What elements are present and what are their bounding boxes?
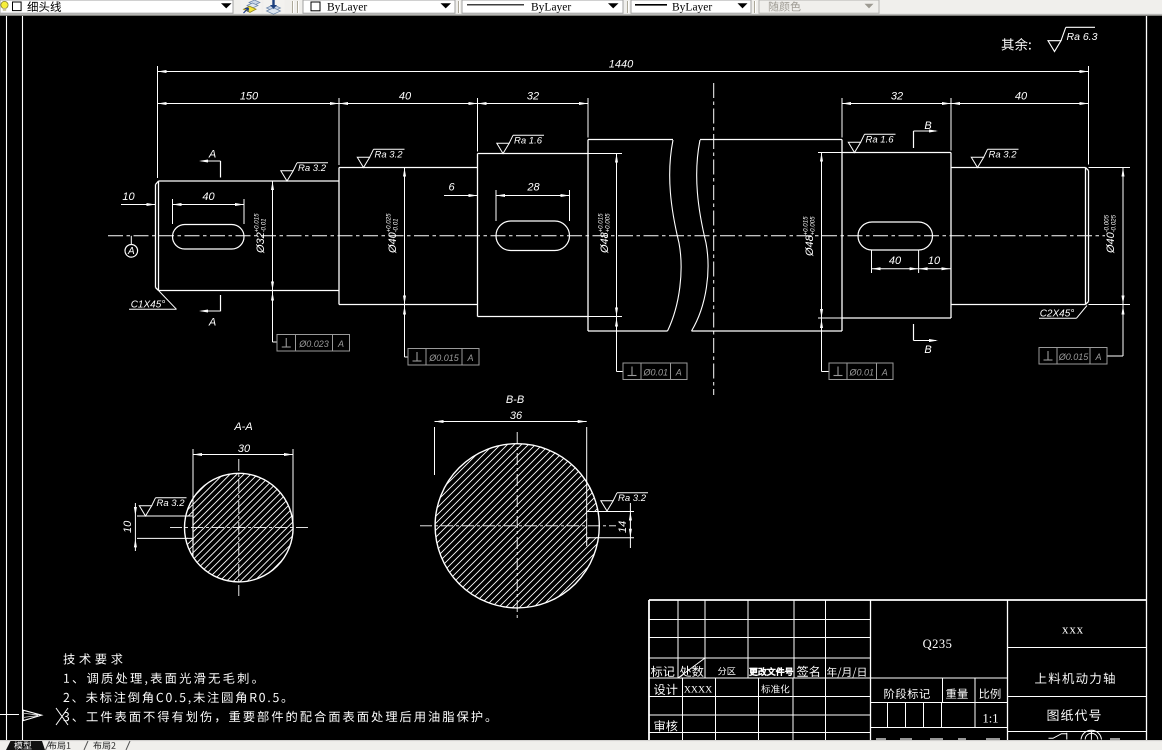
svg-text:36: 36 bbox=[510, 410, 523, 422]
svg-text:Ra 3.2: Ra 3.2 bbox=[298, 163, 327, 174]
horizontal centerline of shaft bbox=[108, 235, 1105, 237]
svg-text:30: 30 bbox=[238, 443, 251, 455]
svg-text:XXXX: XXXX bbox=[684, 685, 712, 696]
svg-text:ByLayer: ByLayer bbox=[672, 1, 712, 13]
combo dropdown arrow bbox=[221, 3, 232, 8]
section mark A top bbox=[220, 161, 222, 178]
diameter dim 48b bbox=[818, 152, 842, 154]
svg-text:Ø0.023: Ø0.023 bbox=[298, 339, 329, 349]
left edge center mark line + hollow arrow bbox=[0, 714, 19, 716]
title block right bbox=[1008, 647, 1147, 649]
svg-text:Ra 3.2: Ra 3.2 bbox=[618, 493, 647, 504]
svg-text:14: 14 bbox=[617, 521, 629, 533]
layer name 轴头线 bbox=[27, 1, 61, 12]
general surface note 其余 Ra6.3 bbox=[1002, 38, 1031, 51]
section mark B top bbox=[913, 131, 915, 148]
svg-text:10: 10 bbox=[122, 520, 134, 533]
svg-text:Ø40: Ø40 bbox=[387, 231, 399, 254]
svg-text:+0.005: +0.005 bbox=[809, 216, 816, 236]
sheet frame right line bbox=[1146, 16, 1148, 740]
lineweight combobox bbox=[631, 0, 751, 13]
linetype combobox bbox=[462, 0, 623, 13]
shaft section 5 (dia 48) bbox=[842, 152, 951, 154]
dimension 6 (keyway offset S3) bbox=[444, 195, 478, 197]
separator bbox=[627, 1, 629, 13]
toolbar background bbox=[0, 0, 1162, 16]
svg-text:150: 150 bbox=[240, 91, 259, 103]
vertical middle centerline bbox=[713, 83, 715, 395]
dimension 40 (keyway S1) bbox=[172, 199, 174, 224]
svg-text:Ra 6.3: Ra 6.3 bbox=[1067, 31, 1098, 43]
shaft section 2 (dia 40) bbox=[339, 167, 478, 169]
svg-text:Q235: Q235 bbox=[923, 637, 953, 651]
svg-text:10: 10 bbox=[122, 191, 135, 203]
shaft section 1 (dia 32) outline with left chamfer bbox=[155, 185, 157, 288]
svg-text:A: A bbox=[675, 368, 682, 378]
svg-text:40: 40 bbox=[1015, 91, 1028, 103]
color combobox bbox=[303, 0, 455, 13]
toolbar separator bbox=[292, 1, 294, 13]
svg-text:Ra 3.2: Ra 3.2 bbox=[989, 150, 1018, 161]
svg-text:-0.025: -0.025 bbox=[1110, 214, 1117, 232]
svg-text:A: A bbox=[208, 317, 216, 329]
title block header texts bbox=[651, 666, 675, 677]
diameter dim 48a bbox=[588, 153, 622, 155]
svg-text:40: 40 bbox=[889, 255, 902, 267]
dimension row: 150/40/32 ... 32/40 bbox=[338, 98, 340, 165]
break line 1 bbox=[668, 140, 682, 331]
datum A circle bbox=[125, 245, 138, 258]
svg-text:B-B: B-B bbox=[506, 394, 524, 406]
surface finish Ra1.6 on S5 bbox=[848, 142, 860, 152]
layout2 tab bbox=[93, 741, 115, 749]
dimension 1440 bbox=[157, 66, 159, 178]
diameter dim 32 bbox=[272, 181, 274, 342]
svg-text:+0.015: +0.015 bbox=[802, 216, 809, 236]
B-B centerlines bbox=[420, 525, 616, 527]
svg-text:B: B bbox=[924, 344, 931, 356]
tolerance frame perp 0.01 A (left) bbox=[623, 363, 687, 380]
shaft middle section top/bottom edges with break gap bbox=[588, 139, 673, 141]
svg-text:ByLayer: ByLayer bbox=[327, 1, 367, 13]
title block outer border bbox=[649, 599, 1146, 601]
svg-text:ByLayer: ByLayer bbox=[531, 1, 571, 13]
plot style combobox (disabled) 随颜色 bbox=[759, 0, 879, 13]
cross mark near item 3 bbox=[56, 708, 68, 725]
tolerance frame perp 0.015 A bbox=[408, 349, 479, 366]
svg-text:Ra 3.2: Ra 3.2 bbox=[375, 150, 404, 161]
layout tab bar bbox=[0, 740, 1162, 750]
shoulder S5/S6 bbox=[950, 153, 952, 319]
svg-text:+0.025: +0.025 bbox=[385, 213, 392, 233]
button: make object layer current bbox=[241, 0, 262, 13]
svg-text:Ø0.01: Ø0.01 bbox=[848, 368, 874, 378]
svg-text:Ø40: Ø40 bbox=[1105, 231, 1117, 254]
svg-text:A: A bbox=[337, 339, 344, 349]
cut-off bottom row text specks bbox=[876, 738, 886, 740]
svg-text:A: A bbox=[466, 353, 473, 363]
sheet frame left inner line bbox=[22, 16, 24, 740]
svg-text:28: 28 bbox=[526, 182, 540, 194]
svg-text:6: 6 bbox=[448, 182, 455, 194]
shoulder S3/S4 bbox=[587, 140, 589, 332]
svg-text:Ø48: Ø48 bbox=[804, 234, 816, 257]
layout1 tab bbox=[46, 741, 50, 750]
svg-text:A: A bbox=[127, 246, 135, 257]
surface finish Ra3.2 on S2 bbox=[357, 157, 369, 167]
shoulder S2/S3 bbox=[477, 154, 479, 317]
svg-text:40: 40 bbox=[399, 91, 412, 103]
svg-text:xxx: xxx bbox=[1062, 622, 1084, 637]
svg-text:Ø0.01: Ø0.01 bbox=[642, 368, 668, 378]
surface finish Ra3.2 on S6 bbox=[971, 157, 983, 167]
B-B keyway notch bbox=[587, 512, 600, 537]
shaft section 6 (dia 40) with right chamfer bbox=[951, 167, 1086, 169]
layer combobox bbox=[0, 0, 233, 13]
B-B surface finish bbox=[601, 501, 613, 511]
A-A dim 10 bbox=[134, 503, 136, 551]
svg-text:Ra 1.6: Ra 1.6 bbox=[514, 136, 543, 147]
svg-text:+0.015: +0.015 bbox=[253, 213, 260, 233]
shoulder S1/S2 bbox=[338, 168, 340, 305]
svg-text:A: A bbox=[1094, 352, 1101, 362]
dimension 28 (keyway S3) bbox=[495, 190, 497, 221]
shaft section 3 (dia 48) bbox=[478, 153, 589, 155]
section mark B bottom bbox=[913, 324, 915, 341]
A-A keyway notch bbox=[183, 517, 193, 538]
layer color swatch bbox=[13, 2, 22, 11]
svg-text:32: 32 bbox=[891, 91, 903, 103]
surface finish Ra1.6 on S3 bbox=[497, 143, 509, 153]
svg-text:+0.015: +0.015 bbox=[597, 213, 604, 233]
diameter dim 40b bbox=[1089, 167, 1131, 169]
svg-text:-0.01: -0.01 bbox=[392, 218, 399, 232]
title block left table lines bbox=[649, 619, 871, 621]
svg-text:-0.01: -0.01 bbox=[260, 218, 267, 232]
svg-text:40: 40 bbox=[202, 191, 215, 203]
keyway slot section3 bbox=[496, 221, 570, 251]
projection symbols (cut off) bbox=[1049, 733, 1067, 740]
svg-text:1440: 1440 bbox=[609, 59, 634, 71]
button: layer previous bbox=[264, 0, 285, 14]
svg-text:Ø32: Ø32 bbox=[255, 232, 267, 254]
break line 2 bbox=[692, 140, 709, 331]
svg-text:A: A bbox=[881, 368, 888, 378]
A-A centerlines bbox=[170, 527, 309, 529]
technical requirements text bbox=[64, 653, 123, 664]
tolerance frame perp 0.01 A (right) bbox=[829, 363, 893, 380]
model tab (active, dark) bbox=[6, 741, 45, 750]
layer on icon (yellow bulb) bbox=[1, 1, 8, 8]
B-B dim 14 bbox=[629, 503, 631, 548]
svg-text:Ø48: Ø48 bbox=[599, 231, 611, 254]
svg-text:Ra 3.2: Ra 3.2 bbox=[157, 498, 186, 509]
section mark A bottom bbox=[220, 295, 222, 311]
A-A surface finish bbox=[139, 506, 151, 516]
dimension 10 (keyway offset S1) bbox=[121, 204, 156, 206]
svg-text:B: B bbox=[924, 120, 931, 132]
surface finish Ra3.2 on S1 bbox=[281, 171, 293, 181]
keyway slot section5 bbox=[858, 222, 933, 250]
svg-text:A: A bbox=[208, 149, 216, 161]
tolerance frame perp 0.015 A (far right) bbox=[1039, 348, 1107, 365]
svg-text:Ø0.015: Ø0.015 bbox=[428, 353, 460, 363]
title block middle bbox=[871, 677, 1008, 679]
svg-text:A-A: A-A bbox=[233, 421, 252, 433]
dimension 10 (keyway S5) bbox=[919, 268, 951, 270]
svg-text:10: 10 bbox=[928, 255, 941, 267]
sheet frame left outer line bbox=[6, 16, 8, 740]
keyway slot section1 bbox=[173, 225, 245, 250]
separator bbox=[458, 1, 460, 13]
svg-text:Ra 1.6: Ra 1.6 bbox=[866, 135, 895, 146]
shoulder S4/S5 bbox=[841, 140, 843, 332]
svg-text:1:1: 1:1 bbox=[983, 712, 999, 726]
dimension 40 (keyway S5) bbox=[871, 250, 873, 273]
tolerance frame perp 0.023 A bbox=[277, 335, 350, 352]
svg-text:32: 32 bbox=[527, 91, 539, 103]
svg-text:Ø0.015: Ø0.015 bbox=[1058, 352, 1090, 362]
separator bbox=[754, 1, 756, 13]
svg-text:-0.005: -0.005 bbox=[1103, 214, 1110, 232]
B-B circle with hatch bbox=[427, 268, 607, 750]
svg-text:+0.005: +0.005 bbox=[604, 213, 611, 233]
diameter dim 40a bbox=[404, 168, 406, 358]
